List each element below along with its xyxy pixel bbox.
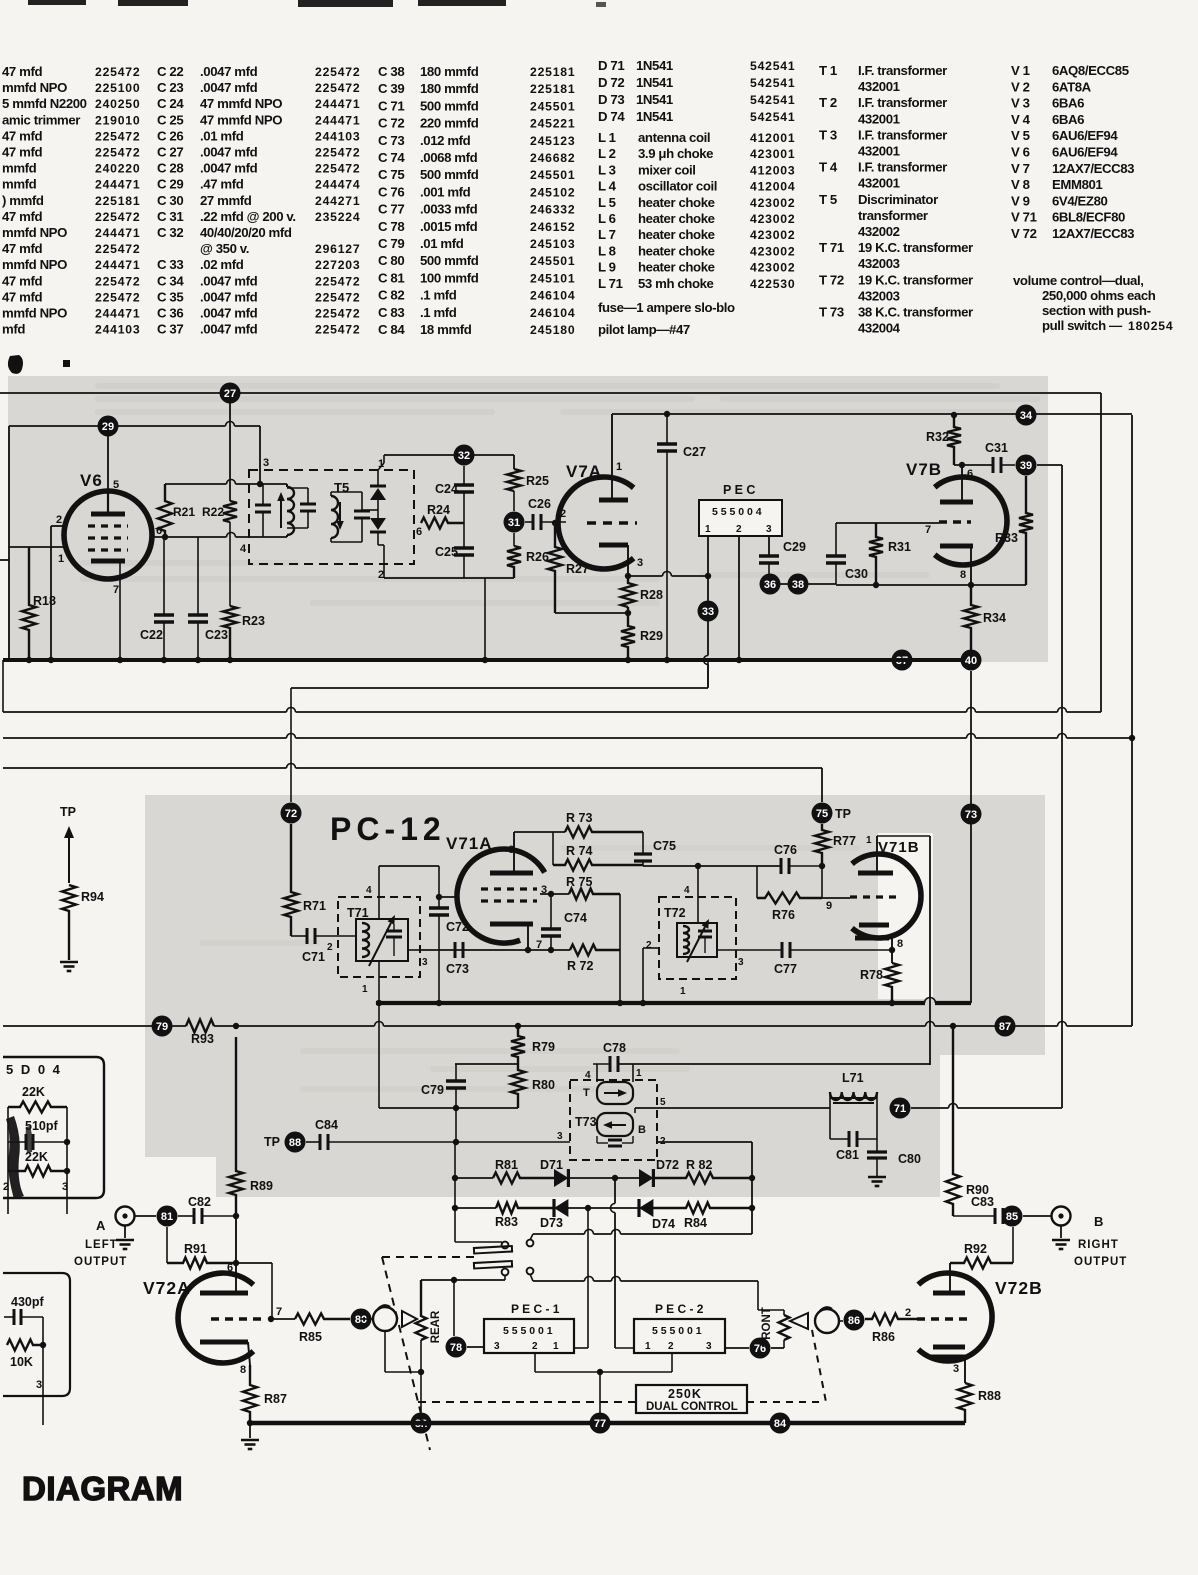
svg-text:7: 7 [276,1306,282,1318]
diode D71 [554,1169,568,1187]
svg-text:423002: 423002 [750,212,795,226]
svg-text:47 mfd: 47 mfd [2,128,42,143]
svg-text:antenna coil: antenna coil [638,130,710,145]
svg-text:244471: 244471 [95,226,140,240]
svg-text:C 33: C 33 [157,257,183,272]
wire left edge vertical [8,426,10,660]
resistor 10K [7,1340,43,1351]
svg-text:3: 3 [766,524,772,535]
wire node27 vertical [229,393,231,501]
svg-text:423002: 423002 [750,261,795,275]
capacitor C26 [532,514,535,530]
svg-text:C79: C79 [421,1083,444,1097]
switch blades [474,1246,512,1253]
wire T5 pin2 rail y578 [384,577,514,579]
svg-text:6AU6/EF94: 6AU6/EF94 [1052,128,1118,143]
V7B grid dashes [939,520,971,523]
svg-text:47 mfd: 47 mfd [2,241,42,256]
svg-text:500 mmfd: 500 mmfd [420,98,479,113]
svg-text:2: 2 [56,514,62,526]
svg-text:C 76: C 76 [378,184,404,199]
capacitor C29 [759,554,779,558]
svg-text:R89: R89 [250,1179,273,1193]
svg-text:225472: 225472 [315,146,360,160]
svg-text:V7B: V7B [906,460,942,479]
svg-text:C 71: C 71 [378,98,404,113]
svg-text:L 2: L 2 [598,146,616,161]
bleed-through ghost rows top band [95,383,1000,389]
svg-text:.0047 mfd: .0047 mfd [200,306,258,321]
svg-text:T 71: T 71 [819,240,844,255]
resistor R27 [548,523,562,613]
svg-text:88: 88 [289,1137,301,1149]
svg-text:81: 81 [161,1211,173,1223]
svg-text:2: 2 [532,1341,538,1352]
svg-text:C22: C22 [140,628,163,642]
output jack B [1023,1215,1051,1217]
T73 pin2 drop to detector [751,1142,753,1234]
capacitor C22 [154,613,174,617]
svg-text:T72: T72 [664,906,686,920]
resistor R76 [757,893,822,904]
PEC pin2 lead [738,536,740,660]
svg-text:R83: R83 [495,1215,518,1229]
node 81 [157,1206,178,1227]
svg-text:3.9 μh choke: 3.9 μh choke [638,146,713,161]
ink blot top-left of schematic [8,355,23,374]
svg-text:L 4: L 4 [598,179,617,194]
svg-text:R81: R81 [495,1158,518,1172]
svg-text:R87: R87 [264,1392,287,1406]
resistor R85 [271,1318,295,1320]
wire C30 top rail y523 [836,522,939,524]
T73 pin2 wire [657,1141,752,1143]
svg-text:225472: 225472 [315,290,360,304]
transformer T73 box [570,1080,657,1160]
svg-text:5 5 5 0 0 1: 5 5 5 0 0 1 [503,1325,553,1337]
wire pin2 tie to node 77 [599,1372,601,1423]
T72 resonator [677,923,717,957]
diode D72 [615,1177,639,1179]
T5 diode top [370,488,386,500]
svg-text:6AT8A: 6AT8A [1052,79,1092,94]
volume control front wiper [815,1309,839,1333]
PEC pin3 lead [768,536,770,556]
svg-text:225472: 225472 [315,307,360,321]
svg-text:V71B: V71B [878,839,920,856]
svg-text:8: 8 [960,569,966,581]
svg-text:33: 33 [702,606,714,618]
svg-text:87: 87 [999,1021,1011,1033]
svg-text:mfd: mfd [2,322,25,337]
capacitor C25 [454,546,474,550]
svg-text:C80: C80 [898,1152,921,1166]
svg-text:R33: R33 [995,531,1018,545]
V71B cathode bars [859,923,889,928]
jack A ground [124,1226,126,1238]
svg-text:4: 4 [585,1070,591,1081]
svg-text:225472: 225472 [315,323,360,337]
resistor R31 [869,523,883,585]
node 84 [770,1413,791,1434]
svg-text:5: 5 [660,1097,666,1108]
svg-text:1: 1 [680,986,686,997]
svg-text:.01 mfd: .01 mfd [420,236,464,251]
svg-text:225100: 225100 [95,81,140,95]
PEC-2 box [634,1319,725,1353]
svg-text:C30: C30 [845,567,868,581]
svg-text:V 3: V 3 [1011,96,1030,111]
svg-text:R91: R91 [184,1242,207,1256]
wire pin3 to PEC [628,575,663,577]
svg-text:100 mmfd: 100 mmfd [420,270,479,285]
resistor R94 [62,885,76,960]
wire node71 to right [911,1107,949,1109]
svg-text:PC-12: PC-12 [330,811,446,847]
resistor R87 [243,1365,257,1423]
svg-text:1N541: 1N541 [636,109,673,124]
svg-text:I.F. transformer: I.F. transformer [858,127,947,142]
svg-text:amic trimmer: amic trimmer [2,112,80,127]
svg-text:542541: 542541 [750,59,795,73]
svg-text:225472: 225472 [315,81,360,95]
svg-text:6BL8/ECF80: 6BL8/ECF80 [1052,210,1125,225]
capacitor C72 [429,906,449,910]
capacitor C82 [193,1208,196,1224]
svg-text:18 mmfd: 18 mmfd [420,322,472,337]
svg-text:12AX7/ECC83: 12AX7/ECC83 [1052,161,1134,176]
tube V72B [918,1273,992,1361]
wire R92 to node85 [1012,1227,1014,1263]
svg-text:180 mmfd: 180 mmfd [420,64,479,79]
svg-text:P E C - 2: P E C - 2 [655,1302,704,1316]
svg-text:V 71: V 71 [1011,210,1037,225]
svg-text:430pf: 430pf [11,1295,44,1309]
svg-text:R76: R76 [772,908,795,922]
svg-text:86: 86 [848,1315,860,1327]
svg-text:.0047 mfd: .0047 mfd [200,145,258,160]
svg-text:245101: 245101 [530,271,575,285]
wire V6 pin5 riser [107,426,109,492]
wire right vertical node39 [1061,465,1063,1108]
volume control rear element [416,1280,427,1340]
svg-text:C 27: C 27 [157,145,183,160]
svg-text:C 39: C 39 [378,81,404,96]
svg-text:19 K.C. transformer: 19 K.C. transformer [858,240,973,255]
wire node72 riser [290,688,292,802]
PEC-1 pin1 lead [574,1347,588,1349]
svg-text:245180: 245180 [530,323,575,337]
svg-text:.0033 mfd: .0033 mfd [420,202,478,217]
volume control rear arrow [402,1311,417,1327]
svg-text:.012 mfd: .012 mfd [420,133,471,148]
wire R73/R74 tie [552,832,554,865]
svg-text:A: A [96,1218,106,1233]
resistor R89 [229,1037,243,1216]
svg-text:244471: 244471 [315,97,360,111]
svg-text:6: 6 [416,526,422,538]
svg-text:.0047 mfd: .0047 mfd [200,80,258,95]
resistor R22 [223,501,237,522]
svg-text:.0047 mfd: .0047 mfd [200,273,258,288]
svg-text:.0015 mfd: .0015 mfd [420,219,478,234]
resistor R82 [653,1173,752,1184]
svg-text:244471: 244471 [315,113,360,127]
V71B plate bar [858,871,893,876]
svg-text:180 mmfd: 180 mmfd [420,81,479,96]
svg-text:4: 4 [366,885,372,896]
svg-text:542541: 542541 [750,110,795,124]
svg-text:OUTPUT: OUTPUT [74,1256,127,1268]
svg-text:245102: 245102 [530,185,575,199]
svg-text:432001: 432001 [858,111,900,126]
svg-text:C 34: C 34 [157,273,184,288]
svg-text:246104: 246104 [530,289,575,303]
svg-text:D74: D74 [652,1217,675,1231]
svg-text:5 D 0 4: 5 D 0 4 [6,1062,62,1077]
svg-text:C 31: C 31 [157,209,183,224]
svg-text:219010: 219010 [95,113,140,127]
resistor R78 [885,963,899,1003]
svg-text:R78: R78 [860,968,883,982]
ground C80 [868,1176,886,1179]
svg-text:heater choke: heater choke [638,243,715,258]
V72A grid dashes [211,1317,266,1320]
T71 pin1 riser [378,961,380,1003]
svg-text:.0047 mfd: .0047 mfd [200,64,258,79]
svg-text:227203: 227203 [315,258,360,272]
svg-text:423001: 423001 [750,147,795,161]
svg-text:225472: 225472 [95,290,140,304]
inductor L71 [830,1092,877,1100]
svg-text:3: 3 [263,457,269,469]
svg-text:C 80: C 80 [378,253,404,268]
svg-text:7: 7 [113,584,119,596]
svg-text:R 72: R 72 [567,959,593,973]
svg-text:32: 32 [458,450,470,462]
svg-text:C 73: C 73 [378,133,404,148]
wire rear pot top y1280 [421,1279,505,1281]
svg-text:542541: 542541 [750,76,795,90]
svg-text:6BA6: 6BA6 [1052,96,1084,111]
diode D74 [588,1207,639,1209]
svg-text:2: 2 [327,942,333,953]
svg-text:R28: R28 [640,588,663,602]
wire R91 to grid loop [236,1262,272,1264]
430pf box wiring [42,1317,44,1425]
resistor R25 [507,469,521,491]
svg-text:423002: 423002 [750,244,795,258]
svg-text:3: 3 [953,1363,959,1375]
svg-text:3: 3 [422,957,428,968]
svg-text:C 81: C 81 [378,270,404,285]
wire C84 node to switch [454,1142,456,1242]
svg-text:R32: R32 [926,430,949,444]
svg-text:R79: R79 [532,1040,555,1054]
svg-text:1: 1 [616,461,622,473]
node 85 [1002,1206,1023,1227]
svg-text:C78: C78 [603,1041,626,1055]
svg-text:R24: R24 [427,503,450,517]
resistor R18 [22,547,36,660]
svg-text:180254: 180254 [1128,319,1173,333]
capacitor C78 line [596,1064,598,1082]
V6 cathode bar [91,559,125,564]
node 75 TP [812,803,833,824]
resistor R88 [958,1383,972,1423]
T72 pin4 riser [697,866,699,923]
wire PEC2 pin1 riser [614,1178,616,1204]
svg-text:T73: T73 [575,1115,597,1129]
wire right vertical from y393 [1100,393,1102,712]
svg-text:C74: C74 [564,911,587,925]
svg-text:C 74: C 74 [378,150,405,165]
svg-text:V72B: V72B [995,1278,1043,1298]
wire plate feedback y465 [954,464,993,466]
T71 pin3 wire [408,949,420,951]
wire long line y768 to R77 [3,767,287,769]
svg-text:3: 3 [62,1181,68,1193]
shaded zone top band [8,376,1048,662]
svg-text:heater choke: heater choke [638,260,715,275]
svg-text:L 3: L 3 [598,162,616,177]
svg-text:mixer coil: mixer coil [638,162,696,177]
svg-text:423002: 423002 [750,196,795,210]
volume control front element [779,1315,790,1340]
svg-text:3: 3 [557,1131,563,1142]
svg-text:R 73: R 73 [566,811,592,825]
wire rail y585 [836,584,1026,586]
svg-text:P E C: P E C [723,483,755,497]
svg-text:246682: 246682 [530,151,575,165]
svg-text:R34: R34 [983,611,1006,625]
svg-text:432003: 432003 [858,288,900,303]
capacitor C31 [992,457,995,473]
svg-text:D71: D71 [540,1158,563,1172]
dashed gang line front [812,1330,826,1402]
svg-text:244474: 244474 [315,178,360,192]
svg-text:.001 mfd: .001 mfd [420,184,471,199]
svg-text:L 71: L 71 [598,276,623,291]
svg-text:71: 71 [894,1103,906,1115]
svg-text:R26: R26 [526,550,549,564]
svg-text:C73: C73 [446,962,469,976]
svg-text:C 72: C 72 [378,116,404,131]
svg-text:C23: C23 [205,628,228,642]
svg-text:C76: C76 [774,843,797,857]
svg-text:T 73: T 73 [819,305,844,320]
svg-text:.22 mfd @ 200 v.: .22 mfd @ 200 v. [200,209,296,224]
wire diode line y1208 [455,1207,496,1209]
PEC-1 pin2 lead [534,1353,536,1372]
resistor R73 [565,827,643,838]
svg-text:C81: C81 [836,1148,859,1162]
svg-text:pull switch —: pull switch — [1042,318,1123,333]
svg-text:296127: 296127 [315,242,360,256]
node 82 [411,1413,432,1434]
rear wiper bottom loop [384,1331,386,1372]
svg-text:.01 mfd: .01 mfd [200,128,244,143]
wire detector rail y584 [770,583,836,585]
svg-text:1: 1 [705,524,711,535]
ground bus top section [3,658,961,662]
svg-text:500 mmfd: 500 mmfd [420,253,479,268]
wire V7B pin8 down [970,671,972,1003]
svg-text:6V4/EZ80: 6V4/EZ80 [1052,193,1108,208]
svg-text:V6: V6 [80,471,103,490]
svg-text:5 mmfd N2200: 5 mmfd N2200 [2,96,87,111]
svg-text:V7A: V7A [566,462,602,481]
wire rail y866 right section [643,865,781,867]
svg-text:3: 3 [706,1341,712,1352]
T73 pin5 wire [634,1108,636,1113]
svg-text:12AX7/ECC83: 12AX7/ECC83 [1052,226,1134,241]
resistor R32 [947,415,961,465]
svg-text:36: 36 [764,579,776,591]
node 37 [892,650,913,671]
svg-text:DIAGRAM: DIAGRAM [22,1470,183,1507]
svg-text:L71: L71 [842,1071,864,1085]
node 32 [454,445,475,466]
svg-text:5 5 5 0 0 4: 5 5 5 0 0 4 [712,506,762,518]
wire long line y712 [3,711,287,713]
svg-text:245103: 245103 [530,237,575,251]
T72 pin2 stub [643,947,659,949]
resistor R80 [511,1064,525,1108]
svg-text:27 mmfd: 27 mmfd [200,193,252,208]
svg-text:R88: R88 [978,1389,1001,1403]
svg-text:225472: 225472 [315,162,360,176]
node 76 [750,1338,771,1359]
svg-text:C 22: C 22 [157,64,183,79]
svg-text:.0047 mfd: .0047 mfd [200,161,258,176]
svg-text:3: 3 [738,957,744,968]
svg-text:1: 1 [58,553,64,565]
svg-text:8: 8 [897,938,903,950]
svg-text:78: 78 [450,1342,462,1354]
V71A plate bar [490,871,533,876]
svg-text:38: 38 [792,579,804,591]
svg-text:432002: 432002 [858,224,900,239]
capacitor C74 [541,927,561,931]
svg-text:500 mmfd: 500 mmfd [420,167,479,182]
lower-left box 430pf 10K [3,1273,70,1396]
wire node32 rail [384,454,464,456]
V7B cathode [940,544,973,549]
capacitor C24 [454,483,474,487]
T5 secondary capacitor [354,510,370,513]
svg-text:D 73: D 73 [598,92,624,107]
svg-text:220 mmfd: 220 mmfd [420,116,479,131]
svg-text:D 71: D 71 [598,58,624,73]
resistor R92 [950,1258,1013,1269]
svg-text:T71: T71 [347,906,369,920]
tube V72A [178,1273,253,1363]
svg-text:C27: C27 [683,445,706,459]
svg-text:6AU6/EF94: 6AU6/EF94 [1052,145,1118,160]
resistor R93 [186,1020,214,1033]
svg-text:C 38: C 38 [378,64,404,79]
shaded zone PC-12 [145,795,940,1197]
wire cathode rail y950 [420,949,570,951]
svg-text:DUAL CONTROL: DUAL CONTROL [646,1401,738,1413]
node 29 [98,416,119,437]
resistor R26 [513,533,515,546]
svg-text:412004: 412004 [750,180,795,194]
svg-text:mmfd: mmfd [2,161,37,176]
svg-text:C 28: C 28 [157,161,183,176]
svg-text:2: 2 [905,1307,911,1319]
